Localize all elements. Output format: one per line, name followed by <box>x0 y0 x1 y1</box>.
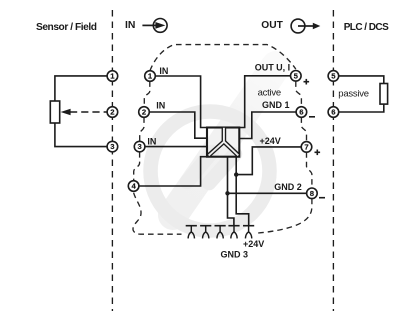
terminal 5 OUT <box>291 71 302 82</box>
svg-text:5: 5 <box>331 72 336 81</box>
separator line PLC side (dashed) <box>332 10 334 311</box>
terminal 2 IN <box>139 107 150 118</box>
svg-text:2: 2 <box>142 108 146 117</box>
svg-text:7: 7 <box>304 143 308 152</box>
plus sign at terminal 5 <box>304 79 310 85</box>
terminal 6 GND1 <box>296 107 307 118</box>
watermark logo <box>151 66 277 231</box>
terminal 2 field <box>107 107 118 118</box>
wire pot top to terminal 1 <box>55 76 107 101</box>
svg-text:3: 3 <box>137 142 141 151</box>
svg-text:6: 6 <box>299 108 303 117</box>
wire terminal2-IN to isolator <box>149 112 207 138</box>
terminal 3 IN <box>134 141 145 152</box>
wire pot bottom to terminal 3 <box>55 123 107 147</box>
wire terminal1-IN to isolator <box>155 76 207 128</box>
junction node GND2 <box>225 191 229 195</box>
svg-text:2: 2 <box>110 108 114 117</box>
wire isolator bottom to ground 5 <box>236 157 249 226</box>
minus sign at terminal 8 <box>319 197 325 199</box>
svg-text:GND 3: GND 3 <box>221 250 249 260</box>
IN flow icon <box>142 19 167 33</box>
svg-text:3: 3 <box>110 142 114 151</box>
svg-text:PLC / DCS: PLC / DCS <box>344 22 389 33</box>
junction node +24V <box>234 172 238 176</box>
ground 1 <box>186 226 197 239</box>
OUT flow icon <box>291 19 320 33</box>
ground 3 <box>215 226 226 239</box>
svg-text:passive: passive <box>338 88 368 99</box>
wire terminal3-IN to isolator <box>145 146 207 148</box>
wire isolator to terminal6 GND1 <box>239 112 296 139</box>
potentiometer <box>50 101 59 123</box>
svg-text:Sensor / Field: Sensor / Field <box>36 22 97 33</box>
isolation amplifier U1 <box>207 128 239 157</box>
svg-text:IN: IN <box>159 66 168 76</box>
svg-text:IN: IN <box>156 100 165 110</box>
wire GND2 node to terminal8 <box>228 192 307 194</box>
resistor passive load <box>380 84 388 105</box>
wire +24V node to terminal7 <box>236 147 301 175</box>
terminal 1 field <box>107 71 118 82</box>
terminal 4 <box>128 181 139 192</box>
svg-text:4: 4 <box>131 182 136 191</box>
svg-text:6: 6 <box>331 108 335 117</box>
terminal 6 PLC <box>328 107 339 118</box>
wire isolator bottom to ground 4 <box>228 157 234 226</box>
plus sign at terminal 7 <box>315 150 321 156</box>
svg-text:8: 8 <box>310 189 315 198</box>
svg-text:OUT: OUT <box>261 20 283 31</box>
svg-text:+24V: +24V <box>243 239 264 249</box>
wire PLC terminal5 to load <box>339 76 384 84</box>
svg-text:5: 5 <box>294 71 299 80</box>
wiper arrow (dashed) to terminal 2 <box>61 109 108 116</box>
wire PLC terminal6 to load <box>339 104 384 112</box>
ground 4 <box>228 226 239 239</box>
minus sign at terminal 6 <box>309 116 315 118</box>
svg-text:IN: IN <box>125 20 135 31</box>
svg-text:1: 1 <box>148 72 153 81</box>
svg-text:GND 2: GND 2 <box>274 182 302 192</box>
module boundary (dashed) <box>133 45 312 235</box>
svg-text:1: 1 <box>110 72 115 81</box>
terminal 1 IN <box>145 71 156 82</box>
wire terminal4 to isolator <box>139 157 207 186</box>
terminal 3 field <box>107 141 118 152</box>
ground 2 <box>200 226 211 239</box>
ground 5 <box>243 226 254 239</box>
terminal 5 PLC <box>328 71 339 82</box>
terminal 7 +24V <box>301 142 312 153</box>
wire isolator to terminal5 OUT <box>239 76 290 128</box>
separator line field side (dashed) <box>111 10 113 311</box>
terminal 8 GND2 <box>307 188 318 199</box>
